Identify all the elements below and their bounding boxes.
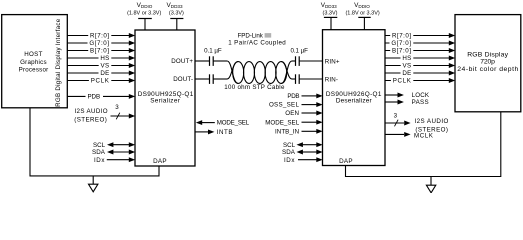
wire DOUT- serializer to capacitor <box>195 78 210 80</box>
wire VS deserializer to display <box>385 63 455 68</box>
label OEN deserializer <box>285 110 299 117</box>
wire B[7:0] host to serializer <box>68 48 136 53</box>
label FPD-Link III <box>228 32 286 46</box>
label SCL serializer <box>93 142 106 149</box>
label SDA deserializer <box>282 149 296 156</box>
wire OSS_SEL into deserializer <box>302 102 323 107</box>
wire RIN- capacitor to deserializer <box>299 78 322 80</box>
power VDDIO serializer <box>127 2 161 30</box>
svg-text:VS: VS <box>101 63 110 70</box>
svg-text:DAP: DAP <box>339 158 353 165</box>
bus slash 3 serializer audio <box>115 104 120 120</box>
svg-text:1 Pair/AC Coupled: 1 Pair/AC Coupled <box>228 40 286 47</box>
svg-text:HOST: HOST <box>24 51 42 58</box>
label IDx deserializer <box>284 157 295 164</box>
svg-text:Serializer: Serializer <box>150 98 180 105</box>
label R[7:0] left <box>88 32 111 40</box>
serializer U1 DS90UH925Q-Q1 block <box>135 30 195 166</box>
power VDD33 serializer <box>166 2 184 30</box>
svg-text:FPD-Link: FPD-Link <box>238 32 264 39</box>
wire RIN+ cable to capacitor <box>292 60 296 62</box>
svg-text:(3.3V): (3.3V) <box>323 11 338 17</box>
label 100 ohm STP Cable <box>224 84 285 91</box>
ground left <box>89 176 98 192</box>
wire VS host to serializer <box>68 63 136 68</box>
wire INTB out of serializer <box>195 129 214 134</box>
svg-text:24-bit color depth: 24-bit color depth <box>457 66 518 73</box>
bus slash 3 deserializer audio <box>394 112 399 126</box>
svg-text:0.1 µF: 0.1 µF <box>204 48 222 55</box>
wire DE host to serializer <box>68 71 136 76</box>
label SCL deserializer <box>283 142 296 149</box>
wire MODE_SEL into serializer <box>196 120 215 125</box>
wire G[7:0] deserializer to display <box>385 41 455 46</box>
svg-text:R[7:0]: R[7:0] <box>90 33 109 40</box>
wire DOUT+ serializer to capacitor <box>195 60 210 62</box>
wire HS deserializer to display <box>385 56 455 61</box>
svg-text:R[7:0]: R[7:0] <box>392 33 411 40</box>
label SDA serializer <box>92 149 106 156</box>
wire ground rail left <box>30 108 159 176</box>
svg-text:PASS: PASS <box>412 99 429 106</box>
label MCLK <box>414 132 434 139</box>
wire I2S audio bus to serializer <box>111 114 136 119</box>
svg-text:OEN: OEN <box>285 110 299 117</box>
wire PDB host to serializer <box>68 94 136 99</box>
twisted pair STP cable <box>227 61 292 83</box>
svg-text:PCLK: PCLK <box>393 78 412 85</box>
power VDD33 deserializer <box>321 2 338 30</box>
wire SCL deserializer bidirectional <box>297 142 323 147</box>
label PDB serializer <box>86 92 104 100</box>
svg-text:G[7:0]: G[7:0] <box>391 40 411 47</box>
svg-text:IDx: IDx <box>94 157 105 164</box>
label B[7:0] left <box>88 47 111 55</box>
svg-text:PCLK: PCLK <box>91 78 110 85</box>
wire R[7:0] deserializer to display <box>385 33 455 38</box>
svg-text:100 ohm STP Cable: 100 ohm STP Cable <box>224 84 285 91</box>
svg-text:RGB Digital Display Interface: RGB Digital Display Interface <box>55 18 62 107</box>
deserializer U2 DS90UH926Q-Q1 block <box>323 30 386 166</box>
svg-text:DOUT+: DOUT+ <box>171 58 193 65</box>
label INTB serializer <box>217 129 233 136</box>
wire PCLK deserializer to display <box>385 78 455 83</box>
svg-text:B[7:0]: B[7:0] <box>392 48 411 55</box>
label HS right <box>401 54 414 62</box>
rgb display block <box>455 15 521 112</box>
svg-text:INTB: INTB <box>217 129 233 136</box>
svg-text:VS: VS <box>403 63 412 70</box>
label B[7:0] right <box>390 47 413 55</box>
svg-text:SDA: SDA <box>92 149 106 156</box>
svg-text:LOCK: LOCK <box>412 92 430 99</box>
label PASS <box>412 99 429 106</box>
label PDB deserializer <box>287 93 299 100</box>
svg-text:3: 3 <box>115 104 119 111</box>
label VS left <box>99 62 112 70</box>
wire LOCK out of deserializer <box>385 93 404 98</box>
capacitor C1 0.1uF DOUT+ <box>204 48 222 66</box>
svg-text:PDB: PDB <box>287 93 299 100</box>
ground right <box>426 177 435 193</box>
wire DOUT+ capacitor to cable <box>213 60 227 62</box>
svg-text:G[7:0]: G[7:0] <box>89 40 109 47</box>
label DE left <box>99 69 112 77</box>
wire IDx serializer <box>107 157 135 162</box>
svg-text:DAP: DAP <box>153 158 167 165</box>
svg-text:(1.8V or 3.3V): (1.8V or 3.3V) <box>127 11 161 17</box>
wire I2S audio bus out of deserializer <box>385 121 411 126</box>
label MODE_SEL deserializer <box>265 119 299 126</box>
label IDx serializer <box>94 157 105 164</box>
host graphics processor block <box>2 15 68 108</box>
svg-text:PDB: PDB <box>88 94 100 101</box>
wire HS host to serializer <box>68 56 136 61</box>
svg-text:SCL: SCL <box>93 142 106 149</box>
wire G[7:0] host to serializer <box>68 41 136 46</box>
svg-text:Deserializer: Deserializer <box>336 98 373 105</box>
wire SDA deserializer bidirectional <box>297 150 323 155</box>
power VDDIO deserializer <box>345 2 379 30</box>
wire OEN into deserializer <box>302 111 323 116</box>
svg-text:I2S AUDIO: I2S AUDIO <box>74 108 107 115</box>
wire RIN- cable to capacitor <box>292 78 296 80</box>
svg-text:DE: DE <box>402 70 411 77</box>
wire R[7:0] host to serializer <box>68 33 136 38</box>
wire DOUT- capacitor to cable <box>213 78 227 80</box>
svg-text:(1.8V or 3.3V): (1.8V or 3.3V) <box>345 11 379 17</box>
svg-text:SCL: SCL <box>283 142 296 149</box>
label HS left <box>99 54 112 62</box>
label DE right <box>401 69 414 77</box>
svg-text:HS: HS <box>402 55 411 62</box>
capacitor C4 0.1uF RIN- <box>296 74 300 84</box>
wire INTB_IN into deserializer <box>302 129 323 134</box>
wire PDB into deserializer <box>302 93 323 98</box>
svg-text:DE: DE <box>100 70 109 77</box>
wire PCLK host to serializer <box>68 78 136 83</box>
svg-text:Graphics: Graphics <box>20 59 47 66</box>
svg-text:HS: HS <box>100 55 109 62</box>
svg-text:0.1 µF: 0.1 µF <box>290 48 308 55</box>
svg-text:DOUT-: DOUT- <box>173 76 193 83</box>
label OSS_SEL deserializer <box>269 102 300 109</box>
svg-text:RIN-: RIN- <box>325 76 338 83</box>
label G[7:0] left <box>88 39 112 47</box>
label PCLK left <box>89 77 111 85</box>
svg-text:MCLK: MCLK <box>414 132 434 139</box>
label LOCK <box>412 92 430 99</box>
svg-text:720p: 720p <box>480 59 495 66</box>
svg-text:OSS_SEL: OSS_SEL <box>269 102 300 109</box>
svg-text:IDx: IDx <box>284 157 295 164</box>
wire MODE_SEL into deserializer <box>302 120 323 125</box>
wire DE deserializer to display <box>385 71 455 76</box>
wire PASS out of deserializer <box>385 100 404 105</box>
wire SDA serializer bidirectional <box>107 150 135 155</box>
svg-text:(STEREO): (STEREO) <box>74 116 107 123</box>
svg-text:INTB_IN: INTB_IN <box>275 128 299 135</box>
svg-text:MODE_SEL: MODE_SEL <box>265 119 299 126</box>
wire IDx deserializer <box>298 157 323 162</box>
svg-text:(3.3V): (3.3V) <box>169 11 184 17</box>
svg-text:Processor: Processor <box>19 67 49 74</box>
capacitor C2 0.1uF DOUT- <box>210 74 214 84</box>
svg-text:SDA: SDA <box>282 149 296 156</box>
wire B[7:0] deserializer to display <box>385 48 455 53</box>
wire RIN+ capacitor to deserializer <box>299 60 322 62</box>
label I2S AUDIO (STEREO) serializer input <box>74 108 108 124</box>
svg-text:I2S AUDIO: I2S AUDIO <box>415 118 449 125</box>
label VS right <box>401 62 414 70</box>
label R[7:0] right <box>390 32 413 40</box>
label G[7:0] right <box>390 39 414 47</box>
label PCLK right <box>391 77 413 85</box>
wire MCLK out of deserializer <box>385 132 411 137</box>
label I2S AUDIO (STEREO) deserializer output <box>415 118 449 133</box>
svg-text:3: 3 <box>394 112 398 119</box>
capacitor C3 0.1uF RIN+ <box>290 48 308 66</box>
label INTB_IN deserializer <box>275 128 299 135</box>
svg-text:B[7:0]: B[7:0] <box>90 48 109 55</box>
wire SCL serializer bidirectional <box>107 142 135 147</box>
svg-text:MODE_SEL: MODE_SEL <box>217 120 250 127</box>
label MODE_SEL serializer <box>217 120 250 127</box>
wire ground rail right <box>346 112 501 177</box>
svg-text:RIN+: RIN+ <box>325 58 340 65</box>
